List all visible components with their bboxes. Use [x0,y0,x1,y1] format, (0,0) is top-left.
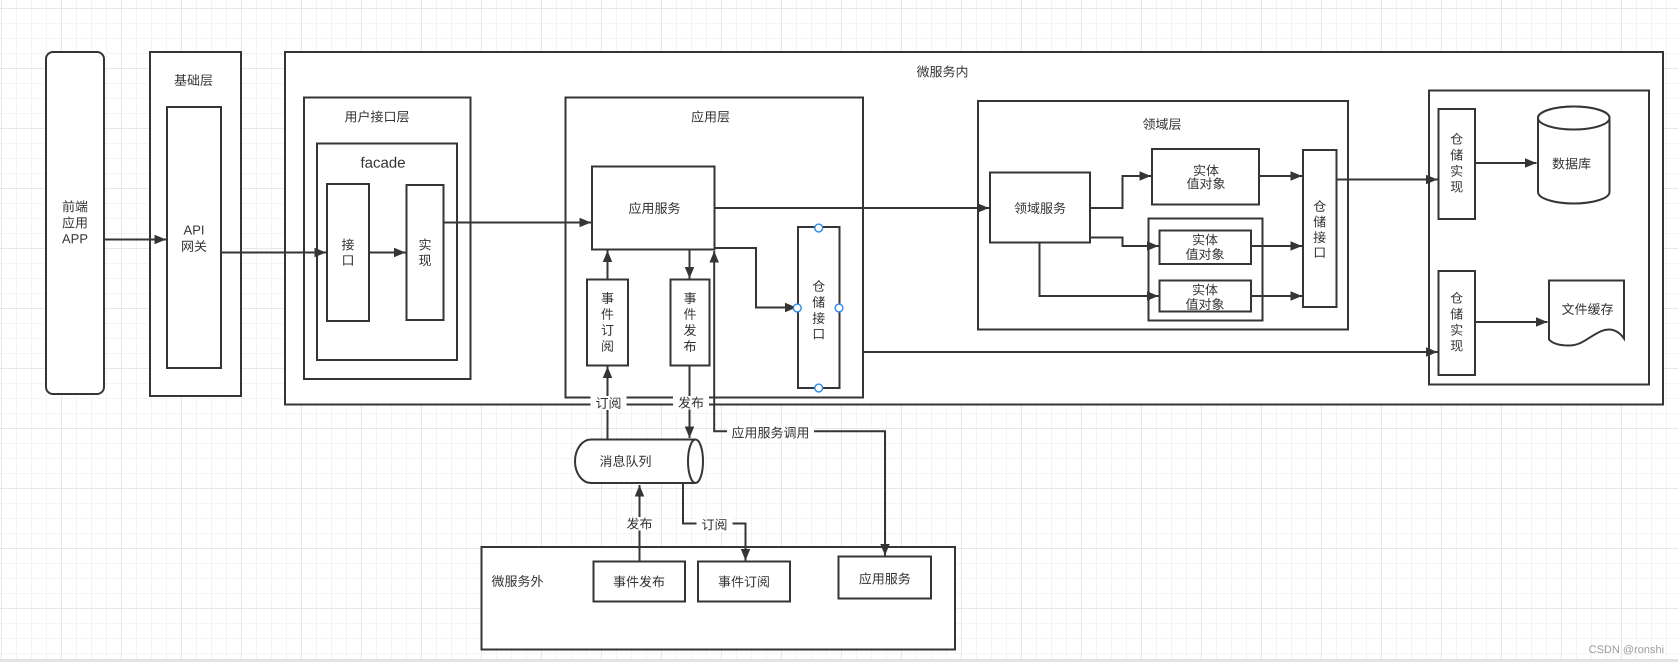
wire 接口→实现 [369,252,406,254]
box 领域层 [978,101,1348,330]
box 接口 [327,184,369,321]
box 仓储接口(领域层) [1303,150,1337,307]
label 应用服务(应用层) [629,202,680,214]
watermark CSDN @ronshi [1589,645,1663,654]
box 事件发布(外) [594,562,686,602]
label 仓储实现(下) [1451,292,1463,304]
box 应用层 [566,98,864,398]
label 发布(上) [673,396,709,410]
wire 实体值对象(下)→仓储接口 [1251,295,1302,297]
wire 应用服务→事件发布 [689,250,691,279]
wire 实现→应用服务 [444,222,592,224]
node handle top of 仓储接口(应用层) [815,224,823,232]
box 事件订阅(外) [698,562,790,602]
wire 事件发布→消息队列(发布) [689,366,691,439]
label 仓储接口(领域层) [1314,200,1326,212]
label 应用层 [692,110,730,122]
box 仓储接口(应用层) [798,227,840,388]
label 数据库 [1553,158,1591,170]
label facade [361,157,405,168]
label 订阅(下) [697,518,733,532]
wire 应用服务→仓储接口(应用层) [715,248,797,308]
wire 实体值对象(上)→仓储接口 [1259,175,1302,177]
label 仓储实现(上) [1451,133,1463,145]
label 订阅(上) [591,396,627,410]
wire 仓储接口(领域层)→仓储实现(上) [1337,179,1438,181]
box 应用服务(应用层) [592,167,715,250]
box 实体值对象(中) [1160,231,1252,265]
box 事件订阅(应用层) [587,280,628,366]
box 实体值对象组 [1149,219,1263,321]
label 发布(下) [622,517,658,531]
wire 消息队列→事件订阅(订阅) [607,367,609,440]
box 实现 [407,185,444,320]
box 微服务内 [285,52,1663,405]
box 微服务外 [482,547,956,650]
label 实体值对象(中) [1193,234,1218,246]
box 事件发布(应用层) [671,280,710,366]
box facade [317,144,457,361]
label 微服务外 [492,575,543,587]
label 应用服务(外) [859,572,910,584]
box 前端应用APP [46,52,104,394]
box 仓储容器 [1429,91,1649,385]
cylinder 数据库 [1538,107,1610,204]
document 文件缓存 [1549,281,1624,346]
box API网关 [167,107,221,368]
label 事件订阅(外) [719,576,769,588]
label 事件发布(应用层) [684,292,696,304]
wire 领域服务→实体值对象(上) [1090,176,1151,208]
label 基础层 [175,74,213,86]
label 实体值对象(下) [1193,284,1218,296]
label 领域层 [1143,118,1181,130]
wire 领域服务→实体值对象(中) [1090,238,1159,247]
wire 应用服务→领域服务 [715,207,990,209]
label 接口 [342,239,354,251]
label 事件发布(外) [614,576,665,588]
label 仓储接口(应用层) [813,280,825,292]
wire 前端应用APP→API网关 [104,239,166,241]
label API网关 [184,226,204,235]
wire 仓储实现(上)→数据库 [1475,162,1537,164]
label 应用服务调用 [727,426,814,440]
wire 应用层→仓储实现(下) [863,351,1438,353]
box 基础层 [150,52,241,396]
wire 事件发布(外)→消息队列(发布) [639,485,641,562]
wire 实体值对象(中)→仓储接口 [1251,245,1302,247]
label 用户接口层 [345,110,409,122]
label 事件订阅(应用层) [602,292,614,304]
box 仓储实现(下) [1439,271,1476,375]
label 消息队列 [600,455,651,467]
label 微服务内 [917,66,968,78]
box 实体值对象(上) [1152,149,1259,205]
label 实现 [419,239,430,251]
label 实体值对象(上) [1194,164,1219,176]
wire 消息队列→事件订阅(外)(订阅) [683,483,746,561]
box 领域服务 [990,173,1090,243]
box 实体值对象(下) [1160,281,1252,312]
label 前端应用APP [63,200,88,212]
wire 应用服务调用 [714,251,885,556]
box 应用服务(外) [839,557,932,599]
box 用户接口层 [304,98,471,380]
wire API网关→接口 [221,252,326,254]
wire 事件订阅→应用服务 [607,251,609,280]
label 文件缓存 [1562,303,1613,315]
wire 领域服务→实体值对象(下) [1040,243,1159,297]
cylinder 消息队列 [575,440,696,484]
label 领域服务 [1014,202,1065,214]
wire 仓储实现(下)→文件缓存 [1475,321,1548,323]
box 仓储实现(上) [1439,109,1476,219]
